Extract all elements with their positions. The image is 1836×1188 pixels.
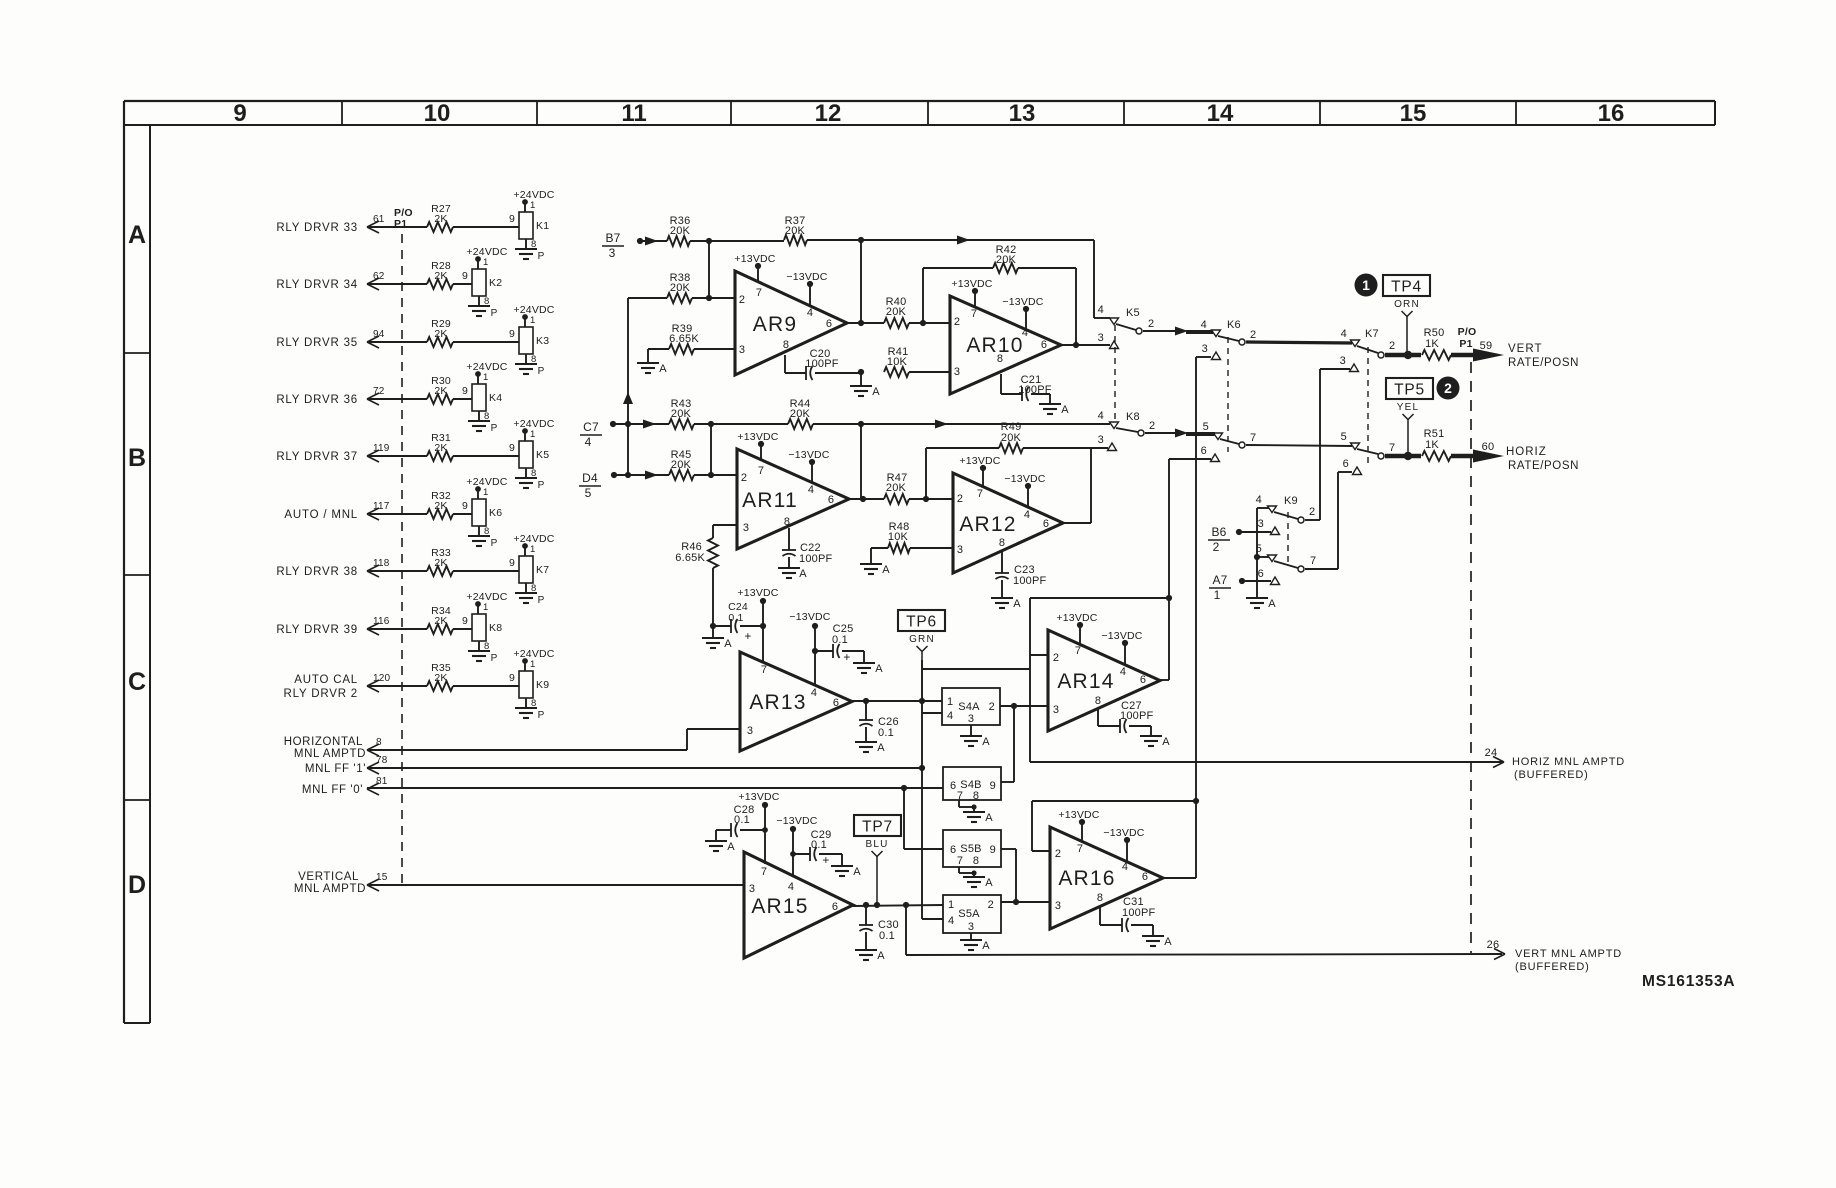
svg-text:K8: K8 — [489, 622, 502, 634]
svg-text:MNL AMPTD: MNL AMPTD — [294, 883, 366, 895]
svg-text:P: P — [491, 423, 498, 434]
svg-text:6: 6 — [1142, 871, 1148, 883]
svg-text:1: 1 — [483, 602, 488, 613]
svg-text:4: 4 — [1256, 494, 1262, 506]
svg-text:7: 7 — [1389, 442, 1395, 454]
svg-text:7: 7 — [971, 308, 977, 320]
svg-text:8: 8 — [999, 537, 1005, 549]
svg-text:A: A — [982, 736, 990, 748]
svg-text:+: + — [744, 629, 751, 643]
svg-text:4: 4 — [811, 687, 817, 699]
svg-text:7: 7 — [1310, 555, 1316, 567]
svg-text:2: 2 — [1250, 329, 1256, 341]
svg-text:6: 6 — [828, 494, 834, 506]
svg-text:0.1: 0.1 — [879, 930, 895, 942]
svg-text:7: 7 — [758, 465, 764, 477]
svg-text:3: 3 — [747, 725, 753, 737]
svg-text:YEL: YEL — [1397, 402, 1420, 413]
svg-text:61: 61 — [373, 214, 385, 225]
svg-text:1: 1 — [483, 257, 488, 268]
svg-text:MS161353A: MS161353A — [1642, 973, 1735, 990]
svg-text:5: 5 — [1341, 431, 1347, 443]
svg-text:1: 1 — [530, 200, 535, 211]
svg-text:20K: 20K — [670, 282, 691, 294]
svg-text:P: P — [538, 480, 545, 491]
svg-text:7: 7 — [761, 866, 767, 878]
svg-text:8: 8 — [973, 790, 979, 802]
svg-text:−13VDC: −13VDC — [1004, 473, 1045, 485]
svg-text:A: A — [875, 663, 883, 675]
svg-text:K9: K9 — [1284, 495, 1298, 507]
svg-text:K7: K7 — [536, 564, 549, 576]
svg-text:A: A — [1013, 598, 1021, 610]
svg-text:60: 60 — [1482, 441, 1495, 453]
svg-text:2: 2 — [1149, 420, 1155, 432]
svg-text:4: 4 — [1098, 304, 1104, 316]
svg-text:2: 2 — [741, 472, 747, 484]
svg-text:TP5: TP5 — [1394, 382, 1425, 399]
svg-text:RATE/POSN: RATE/POSN — [1508, 460, 1579, 472]
svg-text:(BUFFERED): (BUFFERED) — [1514, 769, 1589, 781]
svg-text:A: A — [985, 812, 993, 824]
svg-text:94: 94 — [373, 329, 385, 340]
svg-text:A: A — [872, 386, 880, 398]
svg-text:8: 8 — [783, 339, 789, 351]
svg-text:2: 2 — [989, 701, 995, 713]
svg-text:100PF: 100PF — [799, 553, 832, 565]
svg-text:5: 5 — [1203, 421, 1209, 433]
svg-text:3: 3 — [743, 522, 749, 534]
svg-text:2: 2 — [988, 899, 994, 911]
svg-text:P: P — [538, 595, 545, 606]
svg-text:S5A: S5A — [958, 908, 980, 920]
svg-text:3: 3 — [1053, 704, 1059, 716]
svg-text:78: 78 — [376, 755, 388, 766]
svg-text:4: 4 — [1024, 509, 1030, 521]
svg-text:AR12: AR12 — [959, 513, 1016, 536]
svg-text:4: 4 — [807, 307, 813, 319]
svg-text:100PF: 100PF — [1013, 575, 1046, 587]
svg-text:C7: C7 — [583, 420, 599, 434]
svg-text:P: P — [538, 710, 545, 721]
svg-text:VERT: VERT — [1508, 343, 1542, 355]
svg-text:7: 7 — [761, 664, 767, 676]
svg-text:3: 3 — [957, 544, 963, 556]
svg-text:9: 9 — [462, 270, 468, 282]
svg-text:0.1: 0.1 — [878, 727, 894, 739]
svg-text:6: 6 — [950, 844, 956, 856]
svg-text:6: 6 — [950, 780, 956, 792]
svg-text:RLY DRVR 34: RLY DRVR 34 — [276, 279, 358, 291]
svg-text:P: P — [491, 538, 498, 549]
svg-text:3: 3 — [1258, 518, 1264, 530]
svg-text:P: P — [538, 251, 545, 262]
svg-text:K9: K9 — [536, 679, 549, 691]
svg-text:6.65K: 6.65K — [669, 333, 699, 345]
svg-text:K3: K3 — [536, 335, 549, 347]
svg-text:6: 6 — [1043, 518, 1049, 530]
svg-text:RLY DRVR 39: RLY DRVR 39 — [276, 624, 358, 636]
svg-text:RLY DRVR 38: RLY DRVR 38 — [276, 566, 358, 578]
svg-text:AR14: AR14 — [1057, 670, 1114, 693]
svg-text:4: 4 — [808, 484, 814, 496]
svg-text:20K: 20K — [1001, 432, 1022, 444]
svg-text:59: 59 — [1480, 340, 1493, 352]
svg-text:6: 6 — [832, 901, 838, 913]
svg-text:P1: P1 — [394, 218, 407, 230]
svg-text:9: 9 — [990, 780, 996, 792]
svg-text:16: 16 — [1598, 100, 1625, 127]
svg-text:6: 6 — [1258, 568, 1264, 580]
svg-text:4: 4 — [948, 915, 954, 927]
svg-text:+: + — [822, 853, 829, 867]
svg-text:117: 117 — [373, 501, 390, 512]
svg-text:4: 4 — [1098, 410, 1104, 422]
svg-text:+13VDC: +13VDC — [737, 587, 778, 599]
svg-text:3: 3 — [1340, 355, 1346, 367]
svg-text:+13VDC: +13VDC — [1058, 809, 1099, 821]
svg-text:9: 9 — [509, 442, 515, 454]
svg-text:AR10: AR10 — [966, 334, 1023, 357]
svg-text:9: 9 — [990, 844, 996, 856]
svg-text:AR11: AR11 — [742, 489, 798, 512]
svg-text:P/O: P/O — [1458, 326, 1477, 338]
svg-text:A: A — [1164, 936, 1172, 948]
svg-text:A: A — [982, 940, 990, 952]
svg-text:9: 9 — [509, 328, 515, 340]
svg-text:−13VDC: −13VDC — [1101, 630, 1142, 642]
svg-text:A: A — [985, 877, 993, 889]
svg-text:20K: 20K — [886, 306, 907, 318]
svg-text:MNL AMPTD: MNL AMPTD — [294, 748, 366, 760]
svg-text:5: 5 — [1256, 543, 1262, 555]
svg-text:2: 2 — [1444, 380, 1452, 396]
svg-text:2: 2 — [739, 294, 745, 306]
svg-text:4: 4 — [1201, 319, 1207, 331]
svg-text:ORN: ORN — [1394, 299, 1420, 310]
svg-text:TP4: TP4 — [1391, 279, 1422, 296]
svg-text:7: 7 — [756, 287, 762, 299]
svg-text:9: 9 — [509, 213, 515, 225]
svg-text:7: 7 — [957, 790, 963, 802]
svg-text:6: 6 — [1201, 445, 1207, 457]
svg-text:K6: K6 — [1227, 319, 1241, 331]
svg-text:BLU: BLU — [865, 839, 888, 850]
svg-text:1: 1 — [947, 696, 953, 708]
svg-text:100PF: 100PF — [1122, 907, 1155, 919]
svg-text:AR9: AR9 — [753, 313, 797, 336]
svg-text:RLY DRVR 33: RLY DRVR 33 — [276, 222, 358, 234]
svg-text:100PF: 100PF — [805, 358, 838, 370]
svg-text:4: 4 — [1022, 327, 1028, 339]
svg-text:2: 2 — [1053, 652, 1059, 664]
svg-text:20K: 20K — [785, 225, 806, 237]
svg-text:2: 2 — [957, 493, 963, 505]
svg-text:S4A: S4A — [958, 701, 980, 713]
svg-text:1K: 1K — [1425, 338, 1439, 350]
svg-text:118: 118 — [373, 558, 390, 569]
svg-text:9: 9 — [233, 100, 246, 127]
svg-text:7: 7 — [1077, 843, 1083, 855]
svg-text:9: 9 — [462, 615, 468, 627]
svg-text:B: B — [128, 444, 146, 472]
svg-text:9: 9 — [462, 385, 468, 397]
svg-text:TP6: TP6 — [906, 614, 937, 631]
svg-text:P: P — [491, 653, 498, 664]
svg-text:A: A — [877, 950, 885, 962]
svg-text:K2: K2 — [489, 277, 502, 289]
svg-text:C: C — [128, 668, 146, 696]
svg-text:3: 3 — [1098, 332, 1104, 344]
svg-text:(BUFFERED): (BUFFERED) — [1515, 961, 1590, 973]
svg-text:8: 8 — [376, 737, 382, 748]
svg-text:4: 4 — [1341, 328, 1347, 340]
svg-text:K5: K5 — [536, 449, 549, 461]
svg-text:8: 8 — [1095, 695, 1101, 707]
svg-text:2: 2 — [1389, 340, 1395, 352]
svg-text:81: 81 — [376, 776, 388, 787]
svg-text:3: 3 — [1098, 434, 1104, 446]
svg-text:A: A — [1061, 404, 1069, 416]
svg-text:K4: K4 — [489, 392, 502, 404]
svg-text:A: A — [1268, 598, 1276, 610]
svg-text:7: 7 — [1075, 645, 1081, 657]
svg-text:MNL FF '1': MNL FF '1' — [305, 763, 366, 775]
svg-text:K7: K7 — [1365, 328, 1379, 340]
svg-text:B6: B6 — [1211, 525, 1226, 539]
svg-text:−13VDC: −13VDC — [776, 815, 817, 827]
svg-text:4: 4 — [585, 435, 592, 449]
svg-text:13: 13 — [1009, 100, 1036, 127]
svg-text:11: 11 — [621, 100, 646, 127]
svg-text:1: 1 — [483, 372, 488, 383]
svg-text:120: 120 — [373, 673, 391, 684]
svg-text:9: 9 — [462, 500, 468, 512]
svg-text:7: 7 — [977, 488, 983, 500]
svg-text:A7: A7 — [1212, 573, 1227, 587]
svg-text:AUTO CAL: AUTO CAL — [294, 674, 358, 686]
svg-text:AR13: AR13 — [749, 691, 806, 714]
svg-text:+13VDC: +13VDC — [738, 791, 779, 803]
svg-text:3: 3 — [954, 366, 960, 378]
svg-text:9: 9 — [509, 672, 515, 684]
svg-text:9: 9 — [509, 557, 515, 569]
svg-text:2: 2 — [1055, 848, 1061, 860]
svg-text:8: 8 — [1097, 892, 1103, 904]
svg-text:1: 1 — [530, 429, 535, 440]
svg-text:8: 8 — [973, 855, 979, 867]
svg-text:5: 5 — [585, 486, 592, 500]
svg-text:D: D — [128, 871, 146, 899]
svg-text:6: 6 — [1140, 674, 1146, 686]
svg-text:4: 4 — [1122, 861, 1128, 873]
svg-text:0.1: 0.1 — [811, 839, 827, 851]
svg-text:MNL FF '0': MNL FF '0' — [302, 784, 363, 796]
svg-text:−13VDC: −13VDC — [786, 271, 827, 283]
svg-text:A: A — [724, 638, 732, 650]
svg-text:RLY DRVR 36: RLY DRVR 36 — [276, 394, 358, 406]
svg-text:7: 7 — [1250, 432, 1256, 444]
svg-text:3: 3 — [968, 921, 974, 933]
svg-text:3: 3 — [749, 883, 755, 895]
svg-text:HORIZ: HORIZ — [1506, 446, 1547, 458]
svg-text:8: 8 — [784, 516, 790, 528]
svg-text:+13VDC: +13VDC — [951, 278, 992, 290]
svg-text:1: 1 — [1214, 588, 1221, 602]
svg-text:A: A — [1162, 736, 1170, 748]
svg-text:A: A — [853, 866, 861, 878]
svg-text:7: 7 — [957, 855, 963, 867]
svg-text:1K: 1K — [1425, 439, 1439, 451]
svg-text:119: 119 — [373, 443, 390, 454]
svg-text:K5: K5 — [1126, 307, 1140, 319]
svg-text:S5B: S5B — [960, 843, 981, 855]
svg-text:6: 6 — [826, 318, 832, 330]
svg-text:3: 3 — [1055, 900, 1061, 912]
svg-text:1: 1 — [483, 487, 488, 498]
svg-text:P: P — [538, 366, 545, 377]
svg-text:10K: 10K — [888, 531, 909, 543]
svg-text:20K: 20K — [886, 482, 907, 494]
svg-text:AR15: AR15 — [751, 895, 808, 918]
svg-text:1: 1 — [1362, 277, 1370, 293]
svg-text:2: 2 — [1148, 318, 1154, 330]
svg-text:10K: 10K — [887, 356, 908, 368]
svg-text:3: 3 — [739, 344, 745, 356]
svg-text:D4: D4 — [582, 471, 598, 485]
svg-text:+13VDC: +13VDC — [959, 455, 1000, 467]
svg-text:1: 1 — [530, 544, 535, 555]
svg-text:72: 72 — [373, 386, 385, 397]
svg-text:4: 4 — [947, 710, 953, 722]
svg-text:20K: 20K — [670, 225, 691, 237]
svg-text:RLY DRVR 2: RLY DRVR 2 — [284, 688, 358, 700]
svg-text:HORIZ MNL AMPTD: HORIZ MNL AMPTD — [1512, 756, 1625, 768]
svg-text:AR16: AR16 — [1058, 867, 1115, 890]
svg-text:GRN: GRN — [909, 634, 935, 645]
svg-text:20K: 20K — [996, 254, 1017, 266]
svg-text:RLY DRVR 37: RLY DRVR 37 — [276, 451, 358, 463]
svg-text:2: 2 — [1309, 506, 1315, 518]
svg-text:VERTICAL: VERTICAL — [298, 871, 359, 883]
svg-text:A: A — [727, 841, 735, 853]
svg-text:15: 15 — [1400, 100, 1427, 127]
svg-text:0.1: 0.1 — [832, 634, 848, 646]
svg-text:26: 26 — [1487, 939, 1500, 951]
svg-text:1: 1 — [948, 899, 954, 911]
svg-text:−13VDC: −13VDC — [1103, 827, 1144, 839]
svg-text:AUTO / MNL: AUTO / MNL — [284, 509, 358, 521]
svg-text:10: 10 — [424, 100, 451, 127]
svg-text:3: 3 — [968, 713, 974, 725]
svg-text:VERT MNL AMPTD: VERT MNL AMPTD — [1515, 948, 1622, 960]
svg-text:+13VDC: +13VDC — [737, 431, 778, 443]
svg-text:+13VDC: +13VDC — [734, 253, 775, 265]
svg-text:A: A — [659, 363, 667, 375]
svg-text:6: 6 — [1041, 339, 1047, 351]
svg-text:8: 8 — [997, 353, 1003, 365]
svg-text:6.65K: 6.65K — [675, 552, 705, 564]
svg-text:3: 3 — [609, 246, 616, 260]
svg-text:P: P — [491, 308, 498, 319]
svg-text:+13VDC: +13VDC — [1056, 612, 1097, 624]
svg-text:B7: B7 — [605, 231, 620, 245]
svg-text:3: 3 — [1202, 343, 1208, 355]
svg-text:12: 12 — [815, 100, 842, 127]
svg-text:116: 116 — [373, 616, 390, 627]
svg-text:2: 2 — [954, 316, 960, 328]
svg-text:4: 4 — [1120, 666, 1126, 678]
svg-text:1: 1 — [530, 315, 535, 326]
svg-text:+: + — [843, 650, 850, 664]
svg-text:RLY DRVR 35: RLY DRVR 35 — [276, 337, 358, 349]
svg-text:6: 6 — [833, 697, 839, 709]
svg-text:A: A — [882, 564, 890, 576]
svg-text:4: 4 — [788, 881, 794, 893]
svg-text:−13VDC: −13VDC — [789, 611, 830, 623]
svg-text:24: 24 — [1485, 747, 1498, 759]
svg-text:−13VDC: −13VDC — [788, 449, 829, 461]
svg-text:6: 6 — [1343, 458, 1349, 470]
svg-text:A: A — [799, 568, 807, 580]
svg-text:K1: K1 — [536, 220, 549, 232]
svg-text:P1: P1 — [1459, 338, 1472, 350]
svg-text:K6: K6 — [489, 507, 502, 519]
svg-text:K8: K8 — [1126, 411, 1140, 423]
svg-text:14: 14 — [1207, 100, 1234, 127]
svg-text:RATE/POSN: RATE/POSN — [1508, 357, 1579, 369]
svg-text:2: 2 — [1213, 540, 1220, 554]
svg-text:62: 62 — [373, 271, 385, 282]
svg-text:A: A — [128, 221, 146, 249]
svg-text:HORIZONTAL: HORIZONTAL — [284, 736, 363, 748]
svg-text:A: A — [877, 742, 885, 754]
svg-text:15: 15 — [376, 872, 388, 883]
svg-text:−13VDC: −13VDC — [1002, 296, 1043, 308]
svg-text:1: 1 — [530, 659, 535, 670]
svg-text:TP7: TP7 — [862, 819, 893, 836]
